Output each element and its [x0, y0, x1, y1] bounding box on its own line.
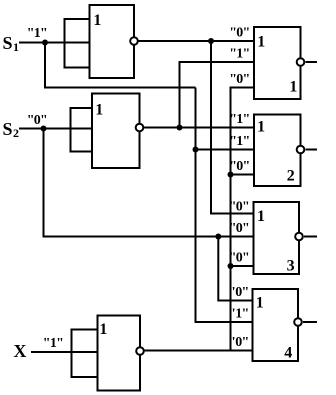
- svg-text:"0": "0": [228, 285, 248, 300]
- svg-text:1: 1: [257, 118, 265, 135]
- svg-text:1: 1: [93, 12, 101, 29]
- svg-text:"0": "0": [229, 159, 249, 174]
- svg-text:1: 1: [257, 33, 265, 50]
- svg-text:1: 1: [95, 101, 103, 118]
- svg-text:"0": "0": [229, 25, 249, 40]
- svg-text:"0": "0": [229, 251, 249, 266]
- svg-text:"1": "1": [229, 112, 249, 127]
- svg-text:3: 3: [287, 257, 295, 274]
- svg-text:"0": "0": [228, 335, 248, 350]
- svg-text:"0": "0": [229, 72, 249, 87]
- svg-text:2: 2: [13, 126, 19, 140]
- svg-text:"1": "1": [228, 307, 248, 322]
- svg-text:"1": "1": [229, 47, 249, 62]
- svg-text:1: 1: [13, 40, 19, 54]
- svg-text:"1": "1": [229, 134, 249, 149]
- svg-text:1: 1: [289, 78, 297, 95]
- svg-text:X: X: [14, 341, 27, 361]
- svg-text:"1": "1": [43, 336, 63, 351]
- svg-text:2: 2: [287, 167, 295, 184]
- svg-text:1: 1: [256, 294, 264, 311]
- svg-text:4: 4: [284, 344, 292, 361]
- svg-text:"0": "0": [229, 200, 249, 215]
- svg-text:"1": "1": [27, 26, 47, 41]
- svg-text:1: 1: [257, 208, 265, 225]
- svg-text:S: S: [3, 119, 13, 139]
- svg-text:"0": "0": [27, 113, 47, 128]
- svg-text:"0": "0": [229, 221, 249, 236]
- svg-text:S: S: [3, 33, 13, 53]
- svg-text:1: 1: [99, 321, 107, 338]
